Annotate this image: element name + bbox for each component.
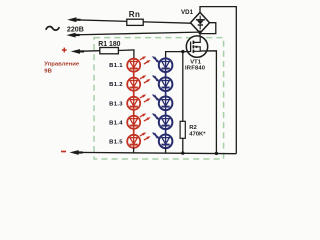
svg-text:В1.5: В1.5	[109, 139, 123, 145]
LED B1.4 (red emitter)	[127, 116, 140, 129]
label + control positive	[62, 49, 67, 51]
light arrows from B1.4 emitter	[140, 115, 143, 117]
wire: blue chain link 1-2	[165, 72, 167, 77]
resistor R1	[100, 48, 119, 54]
photodiode B1.1 (blue receiver)	[159, 58, 173, 72]
node: gate junction dot	[181, 50, 184, 53]
node: R2 bottom junction dot	[181, 151, 184, 154]
wire: control + terminal to R1	[78, 50, 100, 53]
svg-text:R1 180: R1 180	[98, 41, 120, 48]
arrow terminal mains line 1	[67, 17, 76, 22]
wire: bottom return rail	[74, 152, 236, 153]
svg-text:R2: R2	[189, 125, 197, 131]
light arrows from B1.1 emitter	[140, 58, 143, 60]
LED B1.3 (red emitter)	[127, 97, 140, 110]
svg-text:В1.3: В1.3	[109, 101, 123, 107]
photodiode B1.4 (blue receiver)	[159, 116, 173, 130]
photodiode B1.3 (blue receiver)	[159, 97, 173, 111]
svg-text:В1.4: В1.4	[109, 120, 123, 126]
svg-text:VD1: VD1	[181, 9, 194, 16]
wire: blue chain bottom to rail	[165, 148, 167, 153]
node: drain junction dot	[198, 31, 201, 34]
AC source symbol ~	[46, 26, 60, 30]
light arrows from B1.5 emitter	[140, 134, 143, 136]
light arrows into B1.1 receiver	[153, 57, 155, 58]
node: source junction dot on rail	[215, 152, 218, 155]
light arrows from B1.3 emitter	[140, 96, 143, 98]
wire: blue chain link 2-3	[165, 91, 167, 97]
wire: red chain link 1-2	[133, 72, 135, 78]
wire: blue chain link 4-5	[165, 129, 167, 134]
dashed enclosure box (lamp housing outline)	[94, 38, 224, 159]
arrow terminal mains line 2	[66, 33, 75, 38]
wire: blue chain link 3-4	[165, 110, 167, 115]
wire: red chain link 2-3	[133, 91, 135, 97]
resistor Rn	[127, 19, 143, 25]
svg-text:470K*: 470K*	[189, 132, 206, 138]
wire: mains line 2 to VD1 bottom node	[74, 32, 200, 35]
wire: gate node to VT1 gate	[183, 51, 191, 53]
light arrows into B1.5 receiver	[153, 133, 155, 134]
light arrows into B1.4 receiver	[153, 114, 155, 115]
arrow terminal return rail	[70, 150, 79, 155]
wire: VD1 bottom corner to VT1 drain	[199, 31, 201, 37]
wire: VD1 top corner up, across top, down right side to bottom rail	[200, 7, 236, 154]
svg-text:В1.2: В1.2	[109, 82, 123, 88]
svg-text:9В: 9В	[44, 69, 52, 75]
svg-text:IRF840: IRF840	[185, 66, 205, 72]
label - control negative	[61, 151, 66, 153]
wire: photodiode chain top to gate node	[166, 52, 183, 59]
photodiode B1.5 (blue receiver)	[159, 135, 173, 149]
transistor VT1 (MOSFET IRF840)	[186, 36, 207, 57]
wire: red chain bottom to rail	[133, 148, 135, 153]
wire: mains line 1 to Rn and VD1 left	[75, 20, 191, 23]
wire: R2 bottom to rail	[182, 138, 184, 153]
wire: red chain link 3-4	[133, 110, 135, 116]
LED B1.1 (red emitter)	[127, 59, 140, 72]
svg-text:В1.1: В1.1	[109, 63, 123, 69]
wire: VT1 source to right vertical down to rail	[200, 51, 216, 154]
svg-text:Rn: Rn	[129, 10, 141, 19]
arrow terminal control +	[71, 49, 80, 54]
svg-text:Управление: Управление	[44, 61, 80, 67]
photodiode B1.2 (blue receiver)	[159, 77, 173, 91]
light arrows into B1.3 receiver	[153, 95, 155, 96]
light arrows from B1.2 emitter	[140, 77, 143, 79]
wire: R1 to LED chain top	[118, 50, 133, 59]
resistor R2	[180, 121, 185, 138]
wire: red chain link 4-5	[133, 129, 135, 135]
LED B1.2 (red emitter)	[127, 78, 140, 91]
light arrows into B1.2 receiver	[153, 76, 155, 77]
wire: VD1 right corner loop to drain node	[200, 23, 216, 34]
LED B1.5 (red emitter)	[127, 135, 140, 148]
wire: gate node down to R2	[182, 52, 184, 122]
diode bridge VD1	[191, 12, 210, 33]
svg-text:220В: 220В	[67, 25, 84, 33]
